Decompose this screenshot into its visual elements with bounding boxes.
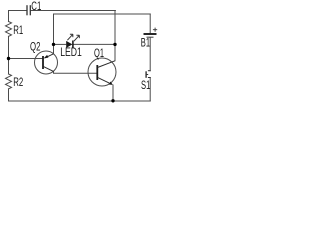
Q2 base bar bbox=[42, 56, 44, 69]
wire Q1 emitter vertical bbox=[112, 85, 114, 101]
LED1 anode triangle bbox=[66, 41, 72, 48]
wire R1 to junction bbox=[8, 36, 10, 58]
wire R2 to bottom rail bbox=[8, 89, 10, 101]
svg-text:S1: S1 bbox=[141, 80, 150, 92]
wire bottom rail bbox=[9, 100, 151, 102]
Q2 emitter arrow bbox=[44, 55, 49, 58]
svg-text:R1: R1 bbox=[13, 25, 23, 37]
transistor Q1 (NPN) bbox=[88, 58, 116, 86]
wire LED anode bbox=[54, 43, 66, 45]
wire LED cathode to collector vertical bbox=[73, 43, 115, 45]
Q2 emitter line bbox=[45, 54, 54, 58]
svg-text:Q2: Q2 bbox=[30, 42, 40, 54]
Q1 emitter line bbox=[98, 78, 110, 84]
Q1 body circle bbox=[88, 58, 116, 86]
node junction Q1 emitter / bottom rail bbox=[111, 99, 114, 102]
Q1 collector line bbox=[98, 61, 115, 68]
battery negative plate (short) bbox=[147, 36, 154, 38]
wire Q1 collector vertical bbox=[114, 11, 116, 61]
Q2 body circle bbox=[35, 51, 58, 74]
wire left vertical upper bbox=[8, 11, 10, 22]
wire top rail bbox=[9, 10, 27, 12]
wire switch to bottom rail bbox=[149, 78, 151, 102]
LED1 cathode bar bbox=[72, 41, 74, 49]
wire base of Q2 from junction bbox=[9, 58, 43, 60]
capacitor C1 bbox=[27, 5, 30, 15]
wire battery top bbox=[149, 14, 151, 33]
switch S1 (pushbutton) bbox=[146, 71, 151, 78]
S1 top contact bbox=[148, 70, 151, 72]
wire Q2 collector to Q1 base bbox=[54, 71, 97, 73]
Q2 collector line bbox=[44, 67, 54, 72]
wire battery to switch bbox=[149, 38, 151, 71]
node junction LED anode bbox=[52, 43, 55, 46]
S1 bottom contact bbox=[148, 77, 151, 79]
S1 actuator bar bbox=[145, 71, 147, 78]
transistor Q2 (PNP) bbox=[35, 51, 58, 74]
Q1 emitter arrow bbox=[109, 82, 113, 85]
S1 actuator stem bbox=[146, 74, 148, 76]
node junction LED cathode / Q1 collector bbox=[113, 43, 116, 46]
svg-text:C1: C1 bbox=[31, 1, 41, 13]
battery positive plate (long) bbox=[144, 33, 157, 35]
wire Q2 emitter vertical bbox=[53, 14, 55, 54]
resistor R2 bbox=[6, 74, 12, 89]
wire junction to R2 bbox=[8, 59, 10, 75]
resistor R1 bbox=[6, 22, 12, 37]
Q1 base bar bbox=[96, 65, 98, 80]
svg-text:B1: B1 bbox=[141, 38, 150, 50]
svg-text:LED1: LED1 bbox=[60, 47, 82, 59]
battery plus sign bbox=[153, 28, 157, 32]
LED1 emission arrow 2 bbox=[74, 35, 80, 41]
wire second rail bbox=[54, 13, 151, 15]
node junction R1-R2-Q2base bbox=[7, 57, 10, 60]
LED1 diode bbox=[66, 34, 79, 48]
LED1 emission arrow 1 bbox=[67, 34, 73, 40]
svg-text:Q1: Q1 bbox=[94, 48, 104, 60]
battery B1 bbox=[144, 28, 158, 38]
svg-text:R2: R2 bbox=[13, 77, 23, 89]
